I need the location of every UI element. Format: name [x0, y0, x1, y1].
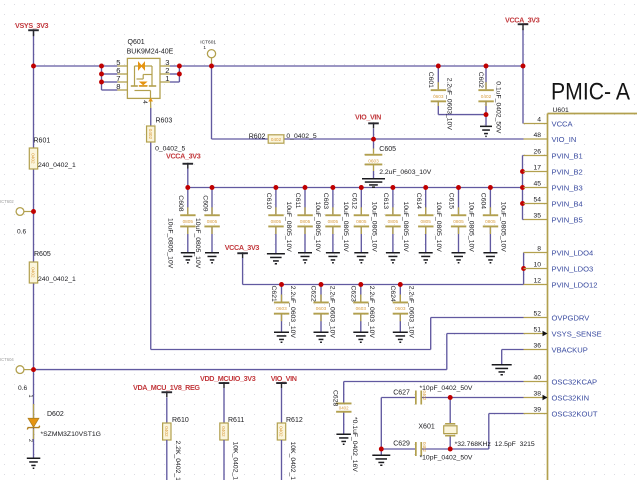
svg-text:R610: R610	[172, 417, 189, 424]
svg-text:0.6: 0.6	[18, 385, 27, 392]
svg-text:C603: C603	[322, 193, 329, 209]
svg-text:C614: C614	[415, 193, 422, 209]
svg-text:ICT601: ICT601	[200, 40, 216, 46]
svg-text:2.2uF_0603_10V: 2.2uF_0603_10V	[289, 286, 296, 339]
svg-text:VSYS_3V3: VSYS_3V3	[15, 21, 49, 30]
svg-text:R601: R601	[34, 137, 51, 144]
svg-text:2.2uF_0603_10V: 2.2uF_0603_10V	[368, 286, 375, 339]
svg-text:2: 2	[27, 439, 33, 442]
svg-text:PVIN_LDO4: PVIN_LDO4	[552, 248, 594, 257]
svg-text:54: 54	[533, 196, 541, 203]
svg-text:OSC32KOUT: OSC32KOUT	[552, 409, 598, 418]
svg-text:2.2uF_0603_10V: 2.2uF_0603_10V	[379, 169, 432, 176]
svg-text:PVIN_B1: PVIN_B1	[552, 151, 583, 160]
svg-text:R611: R611	[228, 417, 244, 424]
svg-text:39: 39	[533, 406, 541, 413]
svg-text:10uF_0805_10V: 10uF_0805_10V	[342, 202, 349, 253]
svg-text:0.1uF_0402_50V: 0.1uF_0402_50V	[494, 81, 501, 134]
svg-text:C604: C604	[480, 193, 487, 209]
svg-text:C611: C611	[294, 193, 301, 209]
svg-text:*0.1uF_0402_16V: *0.1uF_0402_16V	[351, 417, 358, 472]
svg-text:26: 26	[533, 148, 541, 155]
svg-text:10uF_0805_10V: 10uF_0805_10V	[167, 218, 174, 269]
svg-text:*10pF_0402_50V: *10pF_0402_50V	[420, 385, 473, 392]
svg-text:10uF_0805_10V: 10uF_0805_10V	[314, 202, 321, 253]
svg-text:0805: 0805	[485, 219, 496, 224]
svg-text:0402: 0402	[31, 153, 36, 164]
svg-text:0_0402_5: 0_0402_5	[286, 133, 316, 140]
svg-text:52: 52	[533, 310, 541, 317]
svg-text:OSC32KCAP: OSC32KCAP	[552, 377, 598, 386]
svg-text:4: 4	[537, 116, 541, 123]
svg-text:PMIC- A: PMIC- A	[551, 77, 631, 105]
svg-text:10K_0402_1: 10K_0402_1	[289, 442, 296, 480]
svg-text:2.2uF_0603_10V: 2.2uF_0603_10V	[445, 78, 452, 131]
svg-text:36: 36	[533, 342, 541, 349]
svg-text:0603: 0603	[368, 159, 379, 164]
svg-text:10uF_0805_10V: 10uF_0805_10V	[194, 218, 201, 269]
svg-text:0402: 0402	[339, 405, 349, 410]
svg-text:C608: C608	[177, 195, 184, 211]
svg-text:0805: 0805	[328, 219, 339, 224]
svg-text:C623: C623	[350, 286, 357, 302]
svg-text:C629: C629	[393, 441, 410, 448]
svg-text:8: 8	[116, 82, 120, 91]
svg-text:12: 12	[533, 277, 541, 284]
svg-text:VDA_MCU_1V8_REG: VDA_MCU_1V8_REG	[133, 383, 200, 392]
svg-text:10uF_0805_10V: 10uF_0805_10V	[435, 202, 442, 253]
svg-text:PVIN_LDO3: PVIN_LDO3	[552, 264, 594, 273]
svg-text:C605: C605	[379, 146, 396, 153]
svg-text:VDD_MCUIO_3V3: VDD_MCUIO_3V3	[200, 374, 256, 383]
svg-text:VIO_VIN: VIO_VIN	[355, 113, 381, 122]
svg-text:*SZMM3Z10VST1G: *SZMM3Z10VST1G	[41, 431, 101, 438]
svg-text:ICT602: ICT602	[0, 199, 14, 204]
svg-text:D602: D602	[47, 411, 64, 418]
svg-text:PVIN_B3: PVIN_B3	[552, 183, 583, 192]
svg-text:0402: 0402	[148, 129, 153, 140]
svg-text:X601: X601	[418, 424, 434, 431]
svg-text:8: 8	[537, 245, 541, 252]
svg-text:0603: 0603	[356, 306, 367, 311]
svg-text:0603: 0603	[433, 94, 444, 99]
svg-text:1: 1	[27, 395, 33, 398]
svg-text:U601: U601	[553, 107, 569, 114]
svg-text:*32.768KHz 12.5pF 3215: *32.768KHz 12.5pF 3215	[455, 441, 535, 448]
svg-text:0402: 0402	[221, 426, 226, 437]
svg-text:BUK9M24-40E: BUK9M24-40E	[127, 49, 174, 56]
svg-text:10uF_0805_10V: 10uF_0805_10V	[402, 202, 409, 253]
svg-text:PVIN_LDO12: PVIN_LDO12	[552, 280, 598, 289]
svg-text:0805: 0805	[356, 219, 367, 224]
svg-text:0805: 0805	[271, 219, 282, 224]
svg-text:48: 48	[533, 132, 541, 139]
svg-text:C613: C613	[382, 193, 389, 209]
svg-text:PVIN_B4: PVIN_B4	[552, 199, 583, 208]
svg-text:PVIN_B5: PVIN_B5	[552, 215, 583, 224]
svg-text:C627: C627	[393, 389, 410, 396]
svg-text:ICT604: ICT604	[0, 357, 14, 362]
svg-text:240_0402_1: 240_0402_1	[38, 276, 76, 283]
svg-text:VSYS_SENSE: VSYS_SENSE	[552, 329, 602, 338]
svg-text:2.2uF_0603_10V: 2.2uF_0603_10V	[328, 286, 335, 339]
svg-text:C615: C615	[448, 193, 455, 209]
svg-text:R603: R603	[156, 117, 173, 124]
svg-text:R612: R612	[286, 417, 303, 424]
svg-text:17: 17	[533, 164, 541, 171]
svg-text:PVIN_B2: PVIN_B2	[552, 167, 583, 176]
svg-text:VCCA_3V3: VCCA_3V3	[225, 243, 260, 252]
svg-text:0402: 0402	[31, 267, 36, 278]
svg-text:10uF_0805_10V: 10uF_0805_10V	[500, 202, 507, 253]
svg-text:51: 51	[533, 326, 541, 333]
svg-text:45: 45	[533, 180, 541, 187]
svg-text:0805: 0805	[420, 219, 431, 224]
svg-text:VCCA_3V3: VCCA_3V3	[505, 15, 540, 24]
svg-text:C622: C622	[310, 286, 317, 302]
svg-text:38: 38	[533, 390, 541, 397]
svg-text:R605: R605	[34, 251, 51, 258]
svg-text:C602: C602	[477, 72, 484, 88]
svg-text:0402: 0402	[271, 137, 282, 142]
svg-text:C601: C601	[427, 72, 434, 88]
svg-text:4: 4	[141, 100, 148, 104]
svg-text:0402: 0402	[481, 94, 492, 99]
svg-text:10K_0402_1: 10K_0402_1	[231, 442, 238, 480]
svg-text:1: 1	[203, 45, 206, 51]
svg-text:2.2uF_0603_10V: 2.2uF_0603_10V	[408, 286, 415, 339]
svg-text:0.6: 0.6	[17, 229, 26, 236]
svg-text:35: 35	[533, 212, 541, 219]
svg-text:10uF_0805_10V: 10uF_0805_10V	[468, 202, 475, 253]
svg-text:Q601: Q601	[128, 39, 145, 46]
svg-text:0805: 0805	[183, 219, 194, 224]
svg-text:10uF_0805_10V: 10uF_0805_10V	[285, 202, 292, 253]
svg-text:0402: 0402	[279, 426, 284, 437]
svg-text:1: 1	[165, 74, 169, 83]
svg-text:0603: 0603	[316, 306, 327, 311]
svg-text:0805: 0805	[453, 219, 464, 224]
svg-text:10: 10	[533, 261, 541, 268]
svg-text:C621: C621	[270, 286, 277, 302]
svg-text:C610: C610	[265, 193, 272, 209]
svg-text:OSC32KIN: OSC32KIN	[552, 393, 590, 402]
svg-text:*10pF_0402_50V: *10pF_0402_50V	[420, 454, 473, 461]
svg-text:40: 40	[533, 374, 541, 381]
svg-text:0805: 0805	[207, 219, 218, 224]
svg-text:0805: 0805	[388, 219, 399, 224]
svg-text:VIO_IN: VIO_IN	[552, 135, 577, 144]
svg-text:VCCA_3V3: VCCA_3V3	[166, 152, 201, 161]
svg-text:0603: 0603	[276, 306, 287, 311]
svg-text:C612: C612	[350, 193, 357, 209]
svg-text:0_0402_5: 0_0402_5	[155, 145, 185, 152]
svg-text:VCCA: VCCA	[552, 119, 574, 128]
svg-text:0402: 0402	[422, 442, 427, 452]
svg-text:R602: R602	[249, 134, 266, 141]
svg-text:C628: C628	[332, 390, 339, 406]
svg-text:0805: 0805	[300, 219, 311, 224]
svg-text:2.2K_0402_1: 2.2K_0402_1	[174, 441, 181, 480]
svg-text:240_0402_1: 240_0402_1	[38, 162, 76, 169]
svg-text:C609: C609	[201, 195, 208, 211]
svg-text:VBACKUP: VBACKUP	[552, 345, 588, 354]
svg-text:VIO_VIN: VIO_VIN	[271, 374, 297, 383]
svg-text:10uF_0805_10V: 10uF_0805_10V	[371, 202, 378, 253]
svg-text:0402: 0402	[164, 426, 169, 437]
svg-text:C624: C624	[389, 286, 396, 302]
svg-text:OVPGDRV: OVPGDRV	[552, 313, 591, 322]
svg-text:0603: 0603	[395, 306, 406, 311]
